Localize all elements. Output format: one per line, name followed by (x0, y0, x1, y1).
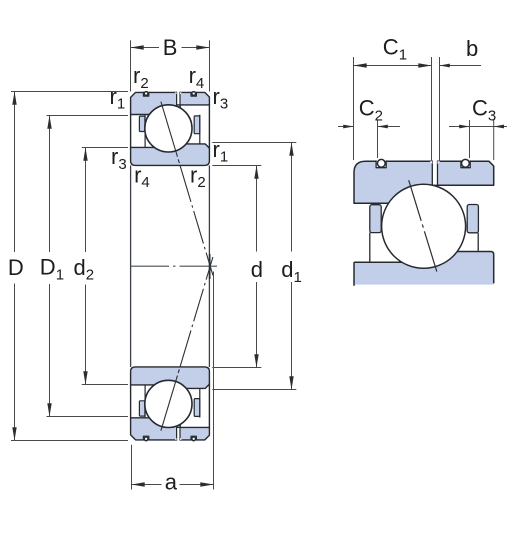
C1 dimension line (354, 65, 432, 67)
svg-text:D: D (8, 255, 24, 280)
svg-text:d: d (251, 257, 263, 282)
lubrication groove slot (right view) (432, 160, 437, 185)
outer ring (upper section) (131, 92, 210, 114)
C2 right extension line (377, 120, 379, 158)
d extension line top (212, 165, 261, 167)
contact angle line (lower, solid extension past apex) (210, 257, 213, 266)
seal notch right (lower) (191, 436, 196, 441)
contact angle line (lower, solid through ball) (161, 379, 176, 430)
D extension line top (11, 91, 128, 93)
D1 extension line top (47, 115, 129, 117)
section left edge between rings (lower) (130, 384, 132, 418)
C1 arrow left (354, 63, 367, 67)
O-ring circle right (192, 92, 196, 96)
d1 arrow up (289, 143, 293, 156)
C3 line (449, 126, 507, 128)
arrowheads (right view dims) (343, 63, 504, 128)
section left edge between rings (130, 114, 132, 148)
C1 arrow right (418, 63, 431, 67)
b arrow (outside left-pointing) (440, 64, 450, 68)
contact angle line (upper, solid extension past apex) (210, 266, 213, 275)
C1/C2 extension line (view left edge) (353, 57, 355, 160)
O-ring circle left (lower) (144, 437, 148, 441)
d2 extension line top (82, 147, 128, 149)
svg-text:C3: C3 (472, 96, 496, 125)
cage line right (lower) (199, 389, 201, 418)
d1 dimension line (291, 143, 293, 252)
svg-text:r4: r4 (134, 162, 150, 191)
d2 arrow down (83, 371, 87, 384)
lower section group (mirror of upper about y=266.15) (131, 257, 213, 441)
slot opening chamfers (175, 92, 182, 94)
slot opening chamfers (right view) (430, 161, 440, 164)
apex marker at pressure centre (209, 254, 211, 279)
C3 right extension line (493, 120, 495, 160)
bore cylinder edge right (connecting sections) (208, 165, 210, 367)
inner ring stroked boundary (top-right run + right edge) (455, 252, 494, 284)
C3 arrow right (outside, pointing left) (494, 125, 504, 129)
svg-text:r2: r2 (190, 162, 206, 191)
a arrow right (200, 482, 213, 486)
cage line left (lower) (144, 385, 146, 417)
O-ring circle left (144, 92, 148, 96)
cage bar left (139, 116, 145, 131)
inner ring stroked boundary (top-left run) (354, 261, 404, 263)
contact angle line (upper, short dashes through inner ring) (176, 153, 181, 169)
lubrication groove slot (outer ring) (177, 92, 180, 105)
ball (right view) (382, 184, 466, 268)
contact angle line (right view) lower solid (424, 231, 436, 271)
svg-text:C2: C2 (359, 96, 383, 125)
svg-text:b: b (466, 36, 478, 61)
B arrow right (196, 45, 209, 49)
inner ring (upper section) (131, 144, 210, 166)
lubrication groove slot (lower outer ring) (177, 427, 180, 440)
b dimension tail line (440, 65, 482, 67)
cage line right (right view) (477, 233, 479, 251)
d1 arrow down (289, 376, 293, 389)
inner ring left edge (353, 262, 355, 286)
C2 right tail (378, 126, 401, 128)
svg-text:r1: r1 (213, 137, 229, 166)
d arrow down (254, 354, 258, 367)
B extension line right (209, 40, 211, 91)
D dimension line (14, 92, 16, 253)
d2 dimension line (85, 148, 87, 253)
contact angle line (lower, dash-dot to apex) (181, 266, 210, 363)
svg-text:d1: d1 (281, 257, 302, 286)
seal notch left (143, 92, 148, 97)
svg-text:B: B (163, 35, 178, 60)
cage bar right (194, 116, 200, 134)
O-ring circle right (right view) (462, 159, 470, 167)
svg-text:r1: r1 (110, 84, 126, 113)
contact angle line (upper, solid through ball) (161, 102, 176, 153)
d2 arrow up (83, 148, 87, 161)
D extension line bottom (11, 440, 128, 442)
upper section group (131, 92, 213, 276)
svg-text:d2: d2 (74, 255, 95, 284)
O-ring circle right (lower) (192, 437, 196, 441)
cage line right (199, 115, 201, 144)
C3 left extension line (469, 120, 471, 158)
C3 arrow left (outside, pointing right) (459, 125, 469, 129)
svg-text:a: a (165, 469, 178, 494)
svg-text:r4: r4 (189, 63, 205, 92)
B dimension line (131, 47, 160, 49)
cage bar right (lower) (194, 399, 200, 417)
C2 arrow right (outside, pointing left) (378, 125, 388, 129)
contact angle line (lower, short dashes through inner ring) (176, 363, 181, 379)
d dimension line (256, 166, 258, 252)
cage line left (right view) (369, 233, 371, 263)
svg-text:r3: r3 (213, 84, 229, 113)
cage bar right (right view) (467, 205, 478, 233)
contact angle line (right view) centre dash (422, 225, 423, 228)
outer ring (right view) (354, 161, 494, 203)
d1 extension line bottom (212, 389, 296, 391)
cage line left (144, 115, 146, 147)
d1 extension line top (212, 142, 296, 144)
svg-text:D1: D1 (40, 255, 64, 284)
inner ring (right view) body fill (354, 252, 494, 285)
B extension line left (130, 40, 132, 91)
slot right wall extension (439, 57, 441, 161)
cage bar left (right view) (370, 205, 381, 233)
svg-text:C1: C1 (383, 35, 407, 64)
d2 extension line bottom (82, 384, 128, 386)
bore cylinder edge left (connecting sections) (130, 165, 132, 367)
a extension line left (131, 445, 133, 490)
outer ring (lower section) (131, 418, 210, 440)
a arrow left (132, 482, 145, 486)
arrowheads (left view dims) (12, 45, 293, 486)
seal notch left (right view) (376, 160, 386, 168)
C2 arrow left (outside, pointing right) (343, 125, 353, 129)
svg-text:r2: r2 (133, 63, 149, 92)
a dimension line (132, 484, 162, 486)
seal notch right (191, 92, 196, 97)
D arrow down (12, 427, 16, 440)
B arrow left (131, 45, 144, 49)
contact angle line (upper, dash-dot to apex) (181, 169, 210, 266)
D1 arrow down (47, 403, 51, 416)
ball (upper) (145, 105, 192, 152)
horizontal axis dash-dot centerline (131, 265, 217, 267)
ball (lower) (145, 380, 192, 427)
seal notch left (lower) (143, 436, 148, 441)
svg-text:r3: r3 (111, 144, 127, 173)
D1 arrow up (47, 116, 51, 129)
O-ring circle left (right view) (377, 159, 385, 167)
slot left wall extension (431, 57, 433, 161)
contact angle line (right view) upper solid (409, 180, 422, 221)
d extension line bottom (212, 367, 261, 369)
section right edge between rings (208, 104, 210, 149)
seal notch right (right view) (461, 160, 470, 168)
d arrow up (254, 166, 258, 179)
cage bar left (lower) (139, 401, 145, 416)
C2 left tail (338, 126, 354, 128)
inner ring (lower section) (131, 367, 210, 389)
D1 dimension line (49, 116, 51, 253)
D1 extension line bottom (47, 416, 129, 418)
D arrow up (12, 92, 16, 105)
a extension line right (from apex) (213, 272, 215, 490)
section right edge between rings (lower) (208, 384, 210, 429)
